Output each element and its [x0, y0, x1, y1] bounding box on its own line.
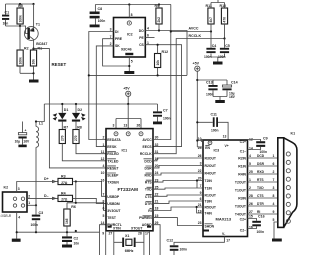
svg-text:R4IN: R4IN	[238, 173, 246, 177]
svg-text:+5V: +5V	[123, 87, 130, 91]
svg-text:TXD: TXD	[257, 186, 264, 190]
svg-text:14: 14	[101, 221, 105, 225]
wire T2IN/T1IN tie	[196, 179, 198, 188]
crystal X1 6MHz	[122, 234, 135, 253]
svg-text:AVCC: AVCC	[142, 138, 152, 142]
node AVCC branch	[170, 30, 172, 32]
svg-text:2: 2	[110, 42, 112, 46]
svg-text:3: 3	[113, 124, 115, 128]
wire K1 pin5 GND	[273, 218, 278, 239]
LED D1	[53, 104, 69, 130]
svg-text:2: 2	[28, 194, 30, 198]
svg-text:3: 3	[18, 187, 20, 191]
svg-text:4: 4	[147, 27, 149, 31]
ground under R1/R2	[29, 80, 39, 83]
svg-text:C9: C9	[263, 137, 268, 141]
svg-text:100n: 100n	[206, 92, 214, 96]
node rail R12 junction	[157, 74, 159, 76]
wire T1OUT to K1 TXD	[248, 186, 278, 190]
svg-text:RTS: RTS	[257, 178, 264, 182]
svg-text:CTS: CTS	[145, 195, 153, 199]
svg-text:V+: V+	[225, 144, 229, 148]
svg-text:4: 4	[273, 202, 275, 206]
svg-text:17: 17	[226, 239, 230, 243]
svg-text:DO: DO	[139, 29, 144, 33]
svg-text:6: 6	[147, 34, 149, 38]
IC2 93C46 EEPROM	[114, 18, 146, 58]
svg-text:XTIN: XTIN	[113, 226, 121, 230]
node R5 bottom	[19, 25, 21, 27]
svg-text:D2: D2	[78, 108, 83, 112]
LED D2	[72, 104, 86, 130]
wire RCCLK riser	[153, 39, 225, 154]
node EN tie	[196, 139, 198, 141]
svg-text:RCCLK: RCCLK	[189, 34, 202, 38]
wire K2 pin2 D- row	[27, 197, 58, 199]
svg-text:470: 470	[223, 17, 227, 23]
svg-text:EESK: EESK	[107, 145, 117, 149]
svg-text:3: 3	[110, 28, 112, 32]
svg-text:27Ω: 27Ω	[61, 198, 68, 202]
node T1 collector / R1 top	[32, 48, 34, 50]
wire IC2 DI to EEDATA column	[89, 28, 114, 140]
svg-text:16V: 16V	[229, 95, 236, 99]
wire PWREN to SHDN	[153, 218, 203, 226]
svg-text:TXLED: TXLED	[107, 159, 119, 163]
wire IC1 GND pin9	[105, 231, 107, 255]
svg-text:SHDN: SHDN	[205, 225, 215, 229]
svg-text:100n: 100n	[163, 117, 171, 121]
capacitor C9	[248, 137, 268, 155]
svg-text:TXD: TXD	[145, 188, 152, 192]
svg-text:27: 27	[109, 231, 113, 235]
ground under C13/C14	[215, 100, 225, 103]
svg-text:R1IN: R1IN	[238, 165, 246, 169]
svg-text:D+: D+	[44, 177, 49, 181]
svg-text:R2: R2	[24, 47, 29, 51]
+5V symbol right	[193, 62, 200, 148]
svg-text:T1: T1	[36, 23, 40, 27]
svg-text:10k: 10k	[156, 60, 160, 66]
svg-text:SLEEP: SLEEP	[107, 174, 119, 178]
svg-text:USB-B: USB-B	[1, 214, 12, 218]
svg-text:28: 28	[249, 194, 253, 198]
wire mid rail DO route	[89, 74, 187, 76]
svg-text:K1: K1	[291, 132, 296, 136]
wire R2/R1 bottoms join	[20, 73, 34, 79]
svg-text:T3OUT: T3OUT	[235, 205, 247, 209]
node R9 bottom on DO row	[158, 29, 160, 31]
svg-text:IC2: IC2	[127, 33, 133, 37]
node +5V on rail	[127, 103, 129, 105]
label AVCC	[189, 27, 199, 31]
resistor R1	[30, 47, 42, 74]
svg-text:C14: C14	[231, 81, 238, 85]
node +5V branch C13/C14	[196, 79, 198, 81]
ground under C7	[153, 122, 162, 125]
svg-text:C12: C12	[167, 238, 174, 242]
op-amp IC3 MAX213 box	[203, 140, 248, 237]
svg-text:R2IN: R2IN	[238, 157, 246, 161]
svg-text:+: +	[25, 129, 27, 133]
resistor R9	[155, 4, 163, 30]
wire CTS to R1OUT	[153, 195, 203, 196]
wire T4OUT to K1 RI	[248, 210, 278, 214]
svg-text:C8: C8	[98, 7, 103, 11]
svg-text:D1: D1	[64, 108, 69, 112]
svg-text:T2IN: T2IN	[205, 179, 213, 183]
node R1 bottom	[32, 72, 34, 74]
svg-text:12: 12	[101, 157, 105, 161]
wire C1/R5 bottom to T1 base	[6, 26, 29, 34]
wire R3IN to K1 CTS	[248, 194, 278, 198]
IC1 right pin numbers	[155, 136, 159, 225]
svg-text:100n: 100n	[180, 248, 188, 252]
wire IC2 PE stub	[145, 34, 154, 38]
IC1 right pin labels	[139, 138, 152, 227]
wire IC2 SK to EESK	[96, 42, 113, 147]
svg-text:100k: 100k	[18, 15, 22, 23]
svg-text:EN: EN	[205, 146, 210, 150]
wire T2OUT to K1 RTS	[248, 178, 278, 182]
svg-text:16: 16	[101, 178, 105, 182]
wire RI to R5OUT	[153, 207, 203, 211]
svg-text:23: 23	[198, 221, 202, 225]
svg-text:USBDP: USBDP	[107, 195, 120, 199]
svg-text:1: 1	[249, 178, 251, 182]
svg-text:5: 5	[249, 162, 251, 166]
svg-text:PE: PE	[139, 36, 144, 40]
wire R1IN to K1 DSR	[248, 162, 278, 166]
svg-text:DCD: DCD	[144, 159, 152, 163]
wire IC3 V- to C12	[174, 237, 230, 246]
svg-text:T4IN: T4IN	[205, 212, 213, 216]
svg-text:T1OUT: T1OUT	[235, 189, 247, 193]
svg-text:C5: C5	[225, 44, 230, 48]
svg-text:11: 11	[101, 150, 105, 154]
svg-text:R3: R3	[61, 174, 66, 178]
svg-text:26: 26	[137, 124, 141, 128]
svg-text:T3IN: T3IN	[205, 200, 213, 204]
svg-text:2: 2	[273, 170, 275, 174]
svg-text:16V: 16V	[23, 140, 30, 144]
capacitor C12	[167, 238, 188, 255]
wire DCD to R3OUT	[153, 158, 203, 161]
svg-text:C13: C13	[206, 81, 213, 85]
capacitor C1	[2, 4, 9, 26]
svg-text:USBDM: USBDM	[107, 202, 120, 206]
node RCCLK / C5	[223, 37, 225, 39]
svg-text:RESET: RESET	[107, 166, 119, 170]
svg-text:DTR: DTR	[257, 202, 264, 206]
wire K2 pin1 VBUS row	[27, 204, 37, 206]
svg-text:2k2: 2k2	[157, 17, 161, 23]
svg-text:C4: C4	[212, 44, 217, 48]
resistor R6	[64, 203, 76, 232]
capacitor C8	[90, 5, 106, 25]
IC3 left pin labels	[205, 157, 217, 229]
svg-text:1k5: 1k5	[65, 218, 69, 224]
node D1 top	[61, 103, 63, 105]
resistor R10	[220, 3, 228, 39]
IC3 right pin labels	[235, 140, 247, 232]
resistor R2	[17, 26, 29, 73]
ground under K2	[12, 239, 21, 242]
wire top left rail C1/R5/T1	[6, 3, 34, 5]
svg-text:CTS: CTS	[257, 194, 264, 198]
svg-text:270: 270	[74, 135, 78, 141]
svg-text:R3OUT: R3OUT	[205, 157, 217, 161]
wire K2 pin3 D+ top stub	[17, 182, 58, 193]
svg-text:PRE: PRE	[115, 37, 123, 41]
svg-text:13: 13	[223, 135, 227, 139]
svg-text:4: 4	[249, 154, 251, 158]
wire C4/C5 bottoms to ground	[211, 57, 225, 62]
svg-text:RCCLK: RCCLK	[140, 152, 152, 156]
resistor R5	[17, 4, 23, 26]
op-amp IC1 FT232AM box	[106, 124, 153, 231]
node rail DI junction	[88, 74, 90, 76]
node R6 bottom	[66, 231, 68, 233]
svg-text:6MHz: 6MHz	[125, 249, 134, 253]
node C2 top	[75, 230, 77, 232]
svg-text:EEDATA: EEDATA	[107, 138, 121, 142]
svg-text:1: 1	[28, 201, 30, 205]
svg-text:27Ω: 27Ω	[61, 181, 68, 185]
svg-text:R12: R12	[162, 50, 169, 54]
svg-text:TEST: TEST	[107, 216, 117, 220]
IC3 left pin numbers	[198, 137, 202, 225]
wire R2IN to K1 DCD	[248, 154, 278, 158]
svg-text:C7: C7	[163, 109, 168, 113]
IC1 left pin numbers	[101, 136, 105, 225]
svg-text:R9: R9	[155, 4, 160, 8]
svg-text:28: 28	[138, 231, 142, 235]
ground under IC2	[124, 71, 134, 74]
svg-text:10: 10	[198, 137, 202, 141]
IC1 left pin labels	[107, 138, 122, 227]
svg-text:CS: CS	[139, 43, 144, 47]
resistor R11	[206, 3, 215, 32]
label RESET	[52, 62, 67, 67]
svg-text:5: 5	[103, 214, 105, 218]
wire D+ pullup vertical	[67, 182, 106, 211]
svg-text:1: 1	[147, 41, 149, 45]
node IC2 VCC top	[128, 3, 130, 5]
wire top right +5V rail	[95, 4, 171, 6]
wire RTS to T2IN	[153, 181, 203, 183]
svg-text:R5OUT: R5OUT	[205, 206, 217, 210]
label D+	[44, 177, 56, 183]
capacitor C4	[204, 32, 216, 59]
wire IC1 XTOUT pin28	[136, 231, 144, 255]
ground under C4/C5	[213, 62, 223, 65]
wire +5V to EN pins	[197, 140, 203, 147]
+5V symbol mid	[123, 87, 131, 105]
svg-text:DI: DI	[115, 30, 118, 34]
svg-text:C2: C2	[74, 237, 79, 241]
wire +5V distribution rail	[44, 103, 157, 105]
svg-text:3V3OUT: 3V3OUT	[107, 209, 121, 213]
svg-text:R3IN: R3IN	[238, 197, 246, 201]
svg-text:7: 7	[103, 193, 105, 197]
wire RXD to R4OUT	[153, 173, 203, 175]
svg-text:EECS: EECS	[142, 145, 152, 149]
node C11 left on +5V column	[196, 121, 198, 123]
svg-text:100n: 100n	[211, 129, 219, 133]
wire branch to C13/C14	[197, 80, 227, 85]
svg-text:DSR: DSR	[145, 166, 153, 170]
svg-text:1: 1	[103, 143, 105, 147]
svg-text:1: 1	[273, 154, 275, 158]
svg-text:10n: 10n	[74, 242, 80, 246]
svg-text:RI: RI	[257, 210, 260, 214]
svg-text:+5V: +5V	[193, 62, 200, 66]
K2 USB-B connector	[1, 186, 31, 220]
svg-text:270: 270	[61, 135, 65, 141]
svg-text:17: 17	[145, 231, 149, 235]
wire RESET from collector to IC1 pin 4	[34, 49, 107, 168]
svg-text:24: 24	[198, 146, 202, 150]
ground under 10u cap	[18, 145, 26, 148]
svg-text:RXLED: RXLED	[107, 152, 119, 156]
wire IC2 pin8 VCC	[129, 5, 132, 18]
svg-text:C1: C1	[5, 11, 10, 15]
svg-text:6: 6	[103, 207, 105, 211]
wire PWRCTL to C2 node	[100, 225, 107, 255]
ground under K1	[272, 239, 282, 242]
wire IC2 DO row	[145, 27, 187, 76]
inductor L1	[36, 104, 44, 205]
svg-text:R4OUT: R4OUT	[205, 172, 217, 176]
svg-text:R5: R5	[18, 4, 23, 8]
svg-text:C1+: C1+	[240, 140, 246, 144]
svg-text:RXD: RXD	[257, 170, 265, 174]
svg-text:25: 25	[249, 170, 253, 174]
svg-text:100n: 100n	[204, 55, 212, 59]
wire T3OUT to K1 DTR	[248, 202, 278, 206]
wire DTR to T3IN	[153, 201, 203, 203]
svg-text:5: 5	[131, 60, 133, 64]
svg-text:R1OUT: R1OUT	[205, 194, 217, 198]
svg-text:MAX213: MAX213	[216, 216, 232, 221]
resistor R7	[59, 126, 106, 161]
capacitor C5a 10u/16V	[15, 122, 30, 145]
wire IC1 XTIN pin27	[114, 231, 122, 255]
label D-	[44, 194, 56, 200]
svg-text:9: 9	[102, 231, 104, 235]
wire C13/C14 bottoms to ground	[213, 97, 227, 101]
svg-text:D–: D–	[44, 194, 49, 198]
svg-text:2: 2	[103, 136, 105, 140]
svg-text:100n: 100n	[98, 19, 106, 23]
connector K1 DB9	[278, 132, 297, 228]
svg-text:26: 26	[249, 202, 253, 206]
svg-text:93C46: 93C46	[121, 48, 132, 52]
svg-text:10k: 10k	[32, 59, 36, 65]
svg-text:10n: 10n	[3, 22, 9, 26]
label RCCLK	[189, 34, 202, 38]
svg-text:3: 3	[273, 186, 275, 190]
svg-text:C3: C3	[39, 211, 44, 215]
svg-text:15: 15	[249, 215, 253, 219]
node L1 top	[35, 120, 37, 122]
svg-text:32: 32	[155, 143, 159, 147]
svg-text:4: 4	[18, 215, 20, 219]
svg-text:R10: R10	[220, 4, 227, 8]
node R5 top	[19, 3, 21, 5]
svg-text:T1IN: T1IN	[205, 187, 213, 191]
svg-text:9: 9	[273, 210, 275, 214]
svg-text:8: 8	[273, 194, 275, 198]
svg-text:C11: C11	[211, 113, 217, 117]
svg-text:TXDEN: TXDEN	[107, 181, 119, 185]
ground under C2	[62, 245, 72, 248]
resistor R3	[58, 174, 106, 196]
capacitor C3	[31, 205, 44, 232]
svg-text:X1: X1	[125, 234, 129, 238]
capacitor C14 10u/16V	[222, 81, 237, 99]
capacitor C5	[218, 39, 230, 59]
svg-text:FT232AM: FT232AM	[118, 187, 139, 192]
svg-text:6: 6	[273, 162, 275, 166]
svg-text:C16: C16	[258, 215, 265, 219]
svg-text:RI: RI	[148, 209, 151, 213]
svg-text:C1–: C1–	[240, 149, 246, 153]
svg-text:L1: L1	[39, 122, 43, 126]
svg-text:R8: R8	[77, 126, 82, 130]
svg-text:RXD: RXD	[145, 174, 153, 178]
svg-text:RESET: RESET	[52, 62, 67, 67]
svg-text:SK: SK	[115, 44, 120, 48]
svg-text:4k7: 4k7	[209, 17, 213, 23]
node R9 top	[158, 3, 160, 5]
wire IC2 CS row to EECS riser	[145, 41, 181, 147]
svg-text:DSR: DSR	[257, 162, 265, 166]
svg-text:R4: R4	[61, 191, 66, 195]
wire R10/R11 top feed	[211, 0, 225, 3]
svg-text:10: 10	[101, 171, 105, 175]
IC1 bottom XTIN/XTOUT labels	[102, 226, 151, 236]
IC3 right pin numbers	[249, 138, 253, 230]
ground under C8	[90, 25, 100, 28]
svg-text:C2+: C2+	[240, 218, 246, 222]
resistor R8	[73, 126, 106, 154]
node pullup corner	[75, 202, 77, 204]
svg-text:4: 4	[103, 164, 105, 168]
svg-text:2: 2	[249, 186, 251, 190]
wire +5V to IC1 VCC pins T	[116, 104, 141, 129]
svg-text:RTS: RTS	[145, 181, 153, 185]
wire AVCC riser	[153, 5, 211, 140]
capacitor C7	[153, 104, 171, 122]
svg-text:PWREN: PWREN	[139, 216, 152, 220]
svg-text:100k: 100k	[18, 57, 22, 65]
wire R4IN to K1 RXD	[248, 170, 278, 174]
svg-text:100n: 100n	[257, 230, 265, 234]
node R12 top on CS row	[157, 44, 159, 46]
capacitor C2	[62, 232, 79, 245]
wire IC2 pin5 GND	[129, 57, 133, 71]
svg-text:T2OUT: T2OUT	[235, 181, 247, 185]
capacitor C16	[248, 215, 265, 235]
wire IC2 PRE to gnd branch	[103, 35, 130, 66]
svg-text:8: 8	[103, 200, 105, 204]
svg-text:XTOUT: XTOUT	[131, 226, 143, 230]
svg-text:T4OUT: T4OUT	[235, 213, 247, 217]
wire K2 pin4 / bottom gnd rail	[17, 212, 100, 239]
svg-text:13: 13	[124, 124, 128, 128]
